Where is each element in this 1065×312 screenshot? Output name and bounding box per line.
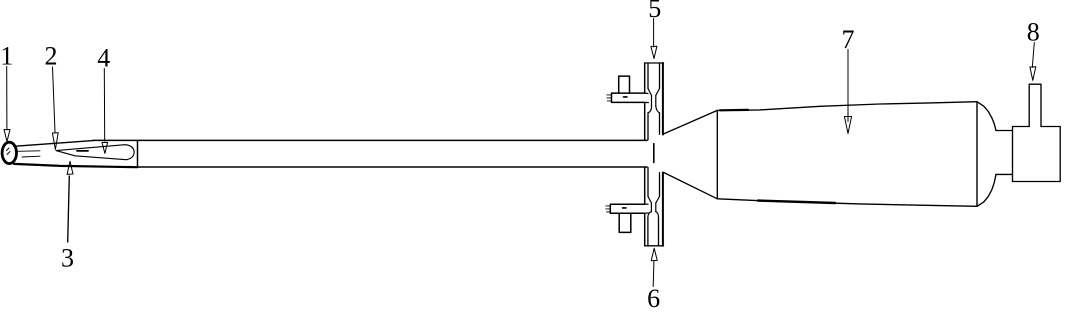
top side arm dash — [624, 96, 628, 98]
neck bottom wall — [996, 173, 1013, 175]
neck top wall — [996, 130, 1013, 132]
svg-text:6: 6 — [647, 284, 660, 312]
cone transition top — [663, 110, 718, 134]
bulb top edge thick patch — [720, 109, 748, 112]
lead line 7 — [847, 50, 849, 122]
lead line 6 — [652, 262, 655, 287]
central aperture line — [653, 144, 655, 163]
svg-text:2: 2 — [45, 42, 58, 71]
tip opening ellipse (part 1) — [2, 142, 16, 163]
top venturi funnel — [648, 89, 660, 96]
arrowhead 3 — [67, 161, 73, 174]
arrowhead 7 — [844, 117, 851, 134]
lead line 4 — [103, 69, 105, 142]
sketch mark a — [17, 150, 40, 153]
flange plate left outer wall — [644, 63, 646, 246]
bulb body bottom edge — [717, 199, 977, 207]
top side arm (part 5) step block — [619, 76, 630, 93]
cone transition bottom — [664, 173, 717, 199]
bottom dome cap — [648, 212, 659, 218]
bulb body top edge — [717, 102, 977, 111]
bottom side arm step block — [619, 213, 631, 232]
top arm neck port — [645, 93, 656, 106]
tapered tip bottom edge — [14, 164, 138, 167]
outer tube top wall — [93, 139, 647, 141]
arrowhead 1 — [4, 130, 10, 142]
top side arm end ticks — [607, 95, 612, 101]
svg-text:3: 3 — [61, 244, 74, 273]
arrowhead 5 — [651, 46, 657, 58]
sketch mark b — [22, 155, 40, 158]
bulb body right wall — [976, 102, 978, 207]
label 5 — [648, 0, 661, 23]
flange plate right outer wall — [662, 63, 664, 246]
label 8 — [1027, 18, 1040, 47]
label 1 — [0, 42, 13, 71]
lead line 2 — [53, 67, 56, 132]
arrowhead 4 — [102, 142, 108, 153]
bottom shoulder — [977, 174, 996, 206]
label 6 — [647, 284, 660, 312]
lead line 1 — [6, 67, 8, 131]
svg-text:8: 8 — [1027, 18, 1040, 47]
bulb body (part 7) left wall — [716, 110, 718, 198]
connector pin (part 8) — [1029, 84, 1041, 126]
bottom arm neck port — [645, 203, 656, 213]
top side arm body — [612, 93, 645, 102]
flange plate top cap — [645, 62, 664, 64]
outer tube bottom wall — [138, 166, 648, 168]
lead line 3 — [68, 176, 70, 242]
arrowhead 8 — [1030, 67, 1036, 81]
svg-text:5: 5 — [648, 0, 661, 23]
inner tube left wall — [647, 64, 649, 246]
lead line 8 — [1032, 43, 1034, 68]
top venturi flare — [648, 106, 660, 113]
bottom side arm dash — [623, 207, 627, 209]
top shoulder — [977, 102, 996, 131]
bottom side arm end ticks — [606, 206, 611, 212]
label 7 — [842, 25, 855, 54]
label 2 — [45, 42, 58, 71]
label 3 — [61, 244, 74, 273]
hatch inside tip ellipse — [7, 148, 11, 155]
tapered tip top edge — [14, 141, 93, 147]
inner tube right wall — [659, 64, 660, 246]
lead line 5 — [653, 19, 655, 48]
arrowhead 2 — [52, 133, 58, 150]
electrode lead dash — [77, 150, 88, 152]
arrowhead 6 — [651, 248, 657, 261]
bottom venturi funnel — [648, 197, 660, 204]
bulb bottom edge thick patch — [758, 201, 835, 203]
svg-text:4: 4 — [97, 44, 110, 73]
flange plate bottom cap — [645, 245, 664, 247]
inner electrode (part 4) — [56, 145, 134, 160]
bottom side arm (part 6) body — [610, 204, 644, 213]
tip section boundary line — [137, 141, 139, 167]
label 4 — [97, 44, 110, 73]
connector box — [1013, 127, 1061, 182]
